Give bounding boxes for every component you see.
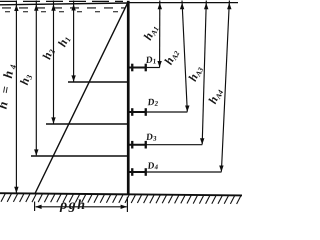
svg-text:D3: D3 [145,132,158,143]
svg-text:D4: D4 [146,161,159,172]
svg-text:ρgh: ρgh [59,198,87,213]
svg-text:D1: D1 [144,55,156,66]
svg-text:D2: D2 [146,97,159,108]
